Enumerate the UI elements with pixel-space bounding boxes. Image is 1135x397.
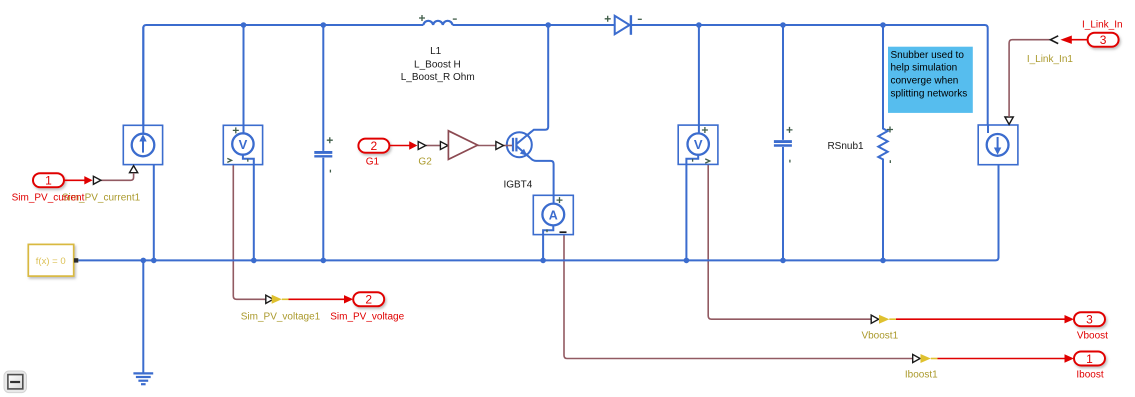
svg-text:L_Boost H: L_Boost H xyxy=(414,59,461,70)
capacitor C1 xyxy=(314,152,332,156)
svg-text:IGBT4: IGBT4 xyxy=(503,180,532,191)
wire ground branch xyxy=(142,260,144,372)
diode D1 xyxy=(615,16,630,34)
wire IGBT collector xyxy=(517,25,549,144)
CS2 PS port xyxy=(1005,117,1013,124)
wire A sensor minus to bus xyxy=(543,225,553,260)
converter Vboost1 xyxy=(871,315,1074,324)
resistor RSnub1 xyxy=(878,25,887,260)
wire top bus xyxy=(143,25,987,125)
node top C2 xyxy=(780,22,786,28)
svg-text:A: A xyxy=(549,208,558,222)
current source CS1 xyxy=(123,125,162,164)
svg-text:1: 1 xyxy=(1086,352,1093,366)
svg-text:Iboost: Iboost xyxy=(1076,370,1103,381)
node bottom ground xyxy=(141,258,147,264)
svg-text:V: V xyxy=(239,137,248,152)
wire PS V2 measurement xyxy=(708,165,871,320)
current sensor CS2 (right) xyxy=(978,125,1018,165)
current sensor A1 xyxy=(533,195,573,234)
IGBT gate PS port xyxy=(496,142,504,150)
svg-text:splitting networks: splitting networks xyxy=(891,88,968,99)
svg-text:converge when: converge when xyxy=(891,76,959,87)
inport 3 I_Link_In xyxy=(1050,33,1118,47)
wire PS I_Link_In1 xyxy=(1009,40,1050,117)
wire current source CS1 bottom xyxy=(153,164,155,260)
node bottom C2 xyxy=(780,258,786,264)
node bottom C1 xyxy=(321,258,327,264)
wire current source CS1 top xyxy=(142,27,144,134)
collapse button xyxy=(4,371,27,393)
converter Sim_PV_voltage1 xyxy=(266,295,353,304)
wire V1 top xyxy=(243,25,245,134)
wire PS V1 measurement xyxy=(233,165,265,300)
node bottom CS1 xyxy=(151,258,157,264)
svg-text:I_Link_In1: I_Link_In1 xyxy=(1027,54,1074,65)
CS1 PS control port xyxy=(130,166,138,173)
svg-text:1: 1 xyxy=(45,174,52,188)
svg-text:L_Boost_R Ohm: L_Boost_R Ohm xyxy=(401,72,475,83)
node bottom A xyxy=(540,258,546,264)
svg-text:3: 3 xyxy=(1086,313,1093,327)
svg-text:2: 2 xyxy=(371,139,378,153)
inport 2 G1 xyxy=(358,139,425,153)
wire capacitor C2 branch xyxy=(782,25,784,260)
inport 1 Sim_PV_current xyxy=(33,173,101,187)
capacitor C2 xyxy=(774,142,792,146)
svg-text:Vboost1: Vboost1 xyxy=(861,330,898,341)
svg-text:G2: G2 xyxy=(418,157,432,168)
svg-text:I_Link_In: I_Link_In xyxy=(1082,20,1123,31)
svg-text:f(x) = 0: f(x) = 0 xyxy=(36,256,66,267)
ground xyxy=(133,373,153,384)
svg-text:3: 3 xyxy=(1100,33,1107,47)
outport 2 Sim_PV_voltage xyxy=(353,292,384,306)
node bottom V1 xyxy=(251,258,257,264)
svg-text:Sim_PV_current: Sim_PV_current xyxy=(12,193,85,204)
svg-text:Sim_PV_voltage1: Sim_PV_voltage1 xyxy=(241,312,321,323)
wire V2 top xyxy=(698,25,700,134)
solver block f(x)=0 xyxy=(28,244,78,276)
node top V1 xyxy=(241,22,247,28)
svg-text:Snubber used to: Snubber used to xyxy=(891,50,965,61)
converter Iboost1 xyxy=(913,354,1074,363)
svg-text:G1: G1 xyxy=(366,157,380,168)
svg-text:Iboost1: Iboost1 xyxy=(905,370,938,381)
transistor IGBT4 xyxy=(504,132,532,158)
svg-text:V: V xyxy=(694,137,703,152)
annotation snubber note xyxy=(888,47,973,113)
wire bottom bus xyxy=(78,165,998,261)
node top IGBT xyxy=(545,22,551,28)
svg-text:2: 2 xyxy=(365,293,372,307)
wire PS A1 measurement xyxy=(564,235,913,359)
wire V1 minus to bus xyxy=(243,155,254,261)
outport 3 Vboost xyxy=(1074,312,1105,326)
wire PS gain to IGBT gate xyxy=(478,145,496,147)
node top RSnub xyxy=(880,22,886,28)
wire capacitor C1 branch xyxy=(322,25,324,260)
svg-text:RSnub1: RSnub1 xyxy=(827,141,864,152)
wire PS Sim_PV_current1 to CS1 xyxy=(101,173,134,180)
svg-text:help simulation: help simulation xyxy=(891,63,958,74)
node bottom RSnub xyxy=(880,258,886,264)
svg-text:Vboost: Vboost xyxy=(1077,330,1108,341)
node top C1 xyxy=(321,22,327,28)
node bottom V2 xyxy=(684,258,690,264)
inductor L1 xyxy=(423,21,452,25)
outport 1 Iboost xyxy=(1074,352,1105,366)
svg-text:L1: L1 xyxy=(430,46,442,57)
voltage sensor V2 xyxy=(678,125,718,164)
voltage sensor V1 xyxy=(223,125,262,164)
wire IGBT emitter xyxy=(517,146,554,204)
node top V2 xyxy=(696,22,702,28)
wire PS gate G2 xyxy=(426,145,440,147)
wire V2 minus to bus xyxy=(686,155,698,261)
svg-text:Sim_PV_voltage: Sim_PV_voltage xyxy=(330,312,404,323)
gain block (gate driver) xyxy=(440,142,448,150)
